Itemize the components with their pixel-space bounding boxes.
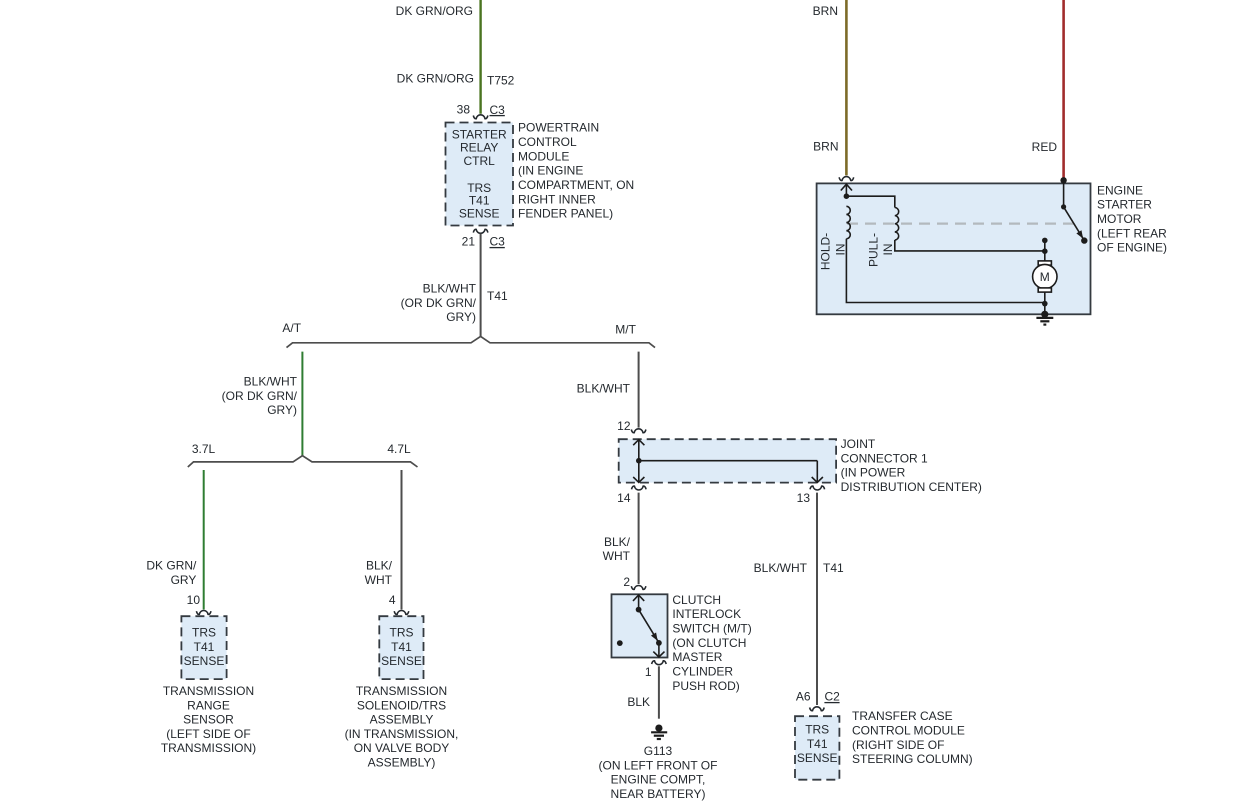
connector symbol C2 pin A6: [810, 707, 825, 711]
svg-text:HOLD-: HOLD-: [819, 233, 833, 270]
switch wire to pin 1: [658, 643, 660, 658]
svg-text:ENGINE: ENGINE: [1097, 183, 1143, 197]
wire entry to junction: [845, 183, 847, 196]
svg-text:4.7L: 4.7L: [387, 442, 411, 456]
svg-text:C3: C3: [490, 235, 506, 249]
svg-text:BLK/WHT: BLK/WHT: [423, 282, 477, 296]
wire DK GRN/ORG to PCM pin 38: [479, 0, 481, 114]
svg-text:CYLINDER: CYLINDER: [672, 665, 733, 679]
svg-text:(IN TRANSMISSION,: (IN TRANSMISSION,: [345, 727, 459, 741]
label DK GRN/ GRY: [146, 559, 197, 588]
svg-text:C2: C2: [825, 689, 841, 703]
svg-text:T41: T41: [194, 640, 215, 654]
svg-text:BLK/: BLK/: [604, 535, 631, 549]
svg-text:T41: T41: [487, 289, 508, 303]
pull-in coil: [895, 208, 899, 241]
hold-in coil: [846, 206, 850, 239]
wire BLK/WHT M/T branch: [638, 352, 640, 428]
svg-text:PULL-: PULL-: [866, 233, 880, 267]
svg-text:RED: RED: [1032, 140, 1058, 154]
connector symbol starter solenoid terminal: [839, 177, 854, 181]
starter terminal arrow up (BRN entry): [841, 184, 852, 190]
svg-text:BRN: BRN: [813, 4, 838, 18]
svg-text:TRANSMISSION): TRANSMISSION): [161, 741, 256, 755]
svg-text:(LEFT SIDE OF: (LEFT SIDE OF: [166, 727, 250, 741]
svg-text:T752: T752: [487, 74, 515, 88]
svg-text:NEAR BATTERY): NEAR BATTERY): [611, 787, 706, 801]
wire motor to bottom bus: [1044, 292, 1046, 314]
label CLUTCH INTERLOCK SWITCH location: [672, 593, 751, 693]
svg-text:C3: C3: [490, 103, 506, 117]
svg-text:GRY: GRY: [171, 573, 197, 587]
svg-text:WHT: WHT: [603, 549, 631, 563]
label BLK/ WHT: [365, 559, 393, 588]
wire pull-in coil to motor node: [895, 240, 1045, 251]
plunger dashed link line: [847, 223, 1075, 225]
label TRANSMISSION SOLENOID/TRS ASSEMBLY location: [345, 684, 459, 770]
label BLK/WHT (OR DK GRN/ GRY) A/T branch: [222, 375, 298, 418]
svg-text:ASSEMBLY: ASSEMBLY: [370, 713, 434, 727]
wire BLK/WHT from JC1 pin 14: [638, 493, 640, 584]
svg-text:10: 10: [187, 593, 201, 607]
svg-text:A/T: A/T: [282, 321, 301, 335]
svg-text:JOINT: JOINT: [841, 437, 876, 451]
motor brush rectangle top: [1038, 261, 1051, 265]
switch feed stub: [1063, 180, 1065, 207]
JC1 internal wire pin 12 to pin 14: [638, 439, 640, 482]
svg-text:RIGHT INNER: RIGHT INNER: [518, 192, 596, 206]
svg-text:DK GRN/: DK GRN/: [146, 559, 197, 573]
label TRANSMISSION RANGE SENSOR location: [161, 684, 256, 755]
transfer case control module box: [795, 716, 839, 780]
wire motor contact to node: [1044, 240, 1046, 251]
svg-text:21: 21: [462, 235, 476, 249]
svg-text:(OR DK GRN/: (OR DK GRN/: [401, 296, 477, 310]
PCM pin name text STARTER RELAY CTRL: [452, 128, 507, 168]
svg-text:GRY): GRY): [267, 403, 297, 417]
svg-text:M/T: M/T: [615, 323, 636, 337]
label G113 location: [599, 744, 718, 801]
JC1 internal bus wire: [639, 460, 818, 462]
svg-text:TRS: TRS: [805, 723, 829, 737]
svg-text:T41: T41: [391, 640, 412, 654]
svg-text:TRS: TRS: [390, 626, 414, 640]
svg-text:BLK/WHT: BLK/WHT: [754, 561, 808, 575]
TRS T41 SENSE text (TCCM): [797, 723, 838, 766]
svg-text:COMPARTMENT, ON: COMPARTMENT, ON: [518, 178, 634, 192]
label BLK/WHT (OR DK GRN/ GRY): [401, 282, 477, 325]
wire BLK/WHT T41 from JC1 pin 13: [816, 493, 818, 705]
wire BLK to ground G113: [658, 666, 660, 718]
svg-text:T41: T41: [807, 737, 828, 751]
clutch interlock switch box: [612, 594, 668, 657]
connector symbol switch pin 1: [652, 661, 667, 665]
svg-text:2: 2: [623, 575, 630, 589]
svg-text:(ON CLUTCH: (ON CLUTCH: [672, 636, 746, 650]
label connector C3 (bottom): [490, 235, 506, 249]
svg-text:4: 4: [389, 593, 396, 607]
svg-text:T41: T41: [469, 194, 490, 208]
switch open contact dot: [617, 640, 623, 646]
junction dot hold-in/pull-in: [844, 193, 850, 199]
switch terminal arrow up (pin 2): [633, 595, 644, 601]
label TRANSFER CASE CONTROL MODULE location: [852, 709, 973, 766]
svg-text:T41: T41: [823, 561, 844, 575]
svg-text:3.7L: 3.7L: [192, 442, 216, 456]
transmission range sensor box: [181, 616, 226, 679]
switch blade arrowhead: [651, 633, 658, 641]
PCM module box (Powertrain Control Module): [446, 123, 514, 226]
svg-text:SENSE: SENSE: [459, 207, 500, 221]
svg-text:38: 38: [457, 103, 471, 117]
svg-text:1: 1: [645, 665, 652, 679]
motor bottom junction dot: [1042, 301, 1048, 307]
solenoid switch blade tip dot: [1081, 237, 1087, 243]
switch contact dot (pin 1 side): [656, 640, 662, 646]
wire BLK/WHT T41 from PCM pin 21: [480, 234, 482, 337]
wire DK GRN/GRY 3.7L branch: [203, 470, 205, 610]
svg-text:BLK: BLK: [627, 695, 650, 709]
svg-text:TRANSMISSION: TRANSMISSION: [163, 684, 254, 698]
svg-text:DK GRN/ORG: DK GRN/ORG: [397, 72, 474, 86]
label BLK/ WHT (switch feed): [603, 535, 631, 563]
JC1 terminal arrow down (pin 13): [812, 477, 823, 482]
svg-text:TRANSMISSION: TRANSMISSION: [356, 684, 447, 698]
svg-text:ASSEMBLY): ASSEMBLY): [368, 756, 436, 770]
connector symbol JC1 pin 14: [632, 486, 647, 490]
svg-text:ENGINE COMPT,: ENGINE COMPT,: [611, 773, 706, 787]
svg-text:MODULE: MODULE: [518, 149, 569, 163]
svg-text:INTERLOCK: INTERLOCK: [672, 607, 741, 621]
svg-text:GRY): GRY): [446, 310, 476, 324]
svg-text:SENSE: SENSE: [381, 654, 422, 668]
svg-text:13: 13: [797, 491, 811, 505]
svg-text:BRN: BRN: [813, 140, 838, 154]
svg-text:(IN ENGINE: (IN ENGINE: [518, 164, 583, 178]
svg-text:CLUTCH: CLUTCH: [672, 593, 721, 607]
svg-text:RANGE: RANGE: [187, 698, 230, 712]
connector symbol JC1 pin 12: [631, 429, 646, 433]
switch wire from pin 2: [638, 594, 640, 609]
switch terminal arrow down (pin 1): [653, 652, 664, 657]
svg-text:SENSE: SENSE: [797, 751, 838, 765]
connector symbol JC1 pin 13: [810, 486, 825, 490]
svg-text:(IN POWER: (IN POWER: [841, 466, 906, 480]
wire RED feed: [1062, 0, 1065, 179]
switch blade: [639, 610, 659, 643]
label PULL- IN (rotated): [866, 233, 895, 267]
svg-text:ON VALVE BODY: ON VALVE BODY: [354, 741, 450, 755]
svg-text:TRS: TRS: [192, 626, 216, 640]
JC1 terminal arrow up (pin 12): [633, 440, 644, 446]
switch pivot dot: [1061, 204, 1066, 209]
svg-text:BLK/WHT: BLK/WHT: [577, 382, 631, 396]
svg-text:BLK/WHT: BLK/WHT: [244, 375, 298, 389]
connector symbol solenoid pin 4: [394, 611, 409, 615]
svg-text:(ON LEFT FRONT OF: (ON LEFT FRONT OF: [599, 758, 718, 772]
label connector C2: [824, 689, 840, 703]
svg-text:RELAY: RELAY: [460, 140, 498, 154]
switch contact dot at RED entry: [1060, 177, 1066, 183]
label JOINT CONNECTOR 1 location: [841, 437, 982, 494]
svg-text:IN: IN: [833, 244, 847, 256]
label HOLD- IN (rotated): [819, 233, 848, 270]
svg-text:(RIGHT SIDE OF: (RIGHT SIDE OF: [852, 738, 944, 752]
wire hold-in coil to motor bottom: [846, 239, 1044, 303]
solenoid switch blade: [1064, 207, 1085, 241]
label connector C3: [490, 103, 506, 117]
joint connector 1 box: [619, 439, 836, 482]
svg-text:CTRL: CTRL: [464, 154, 496, 168]
PCM pin name text TRS T41 SENSE: [459, 181, 500, 220]
JC1 junction dot: [636, 458, 642, 464]
svg-text:A6: A6: [796, 689, 811, 703]
svg-text:STARTER: STARTER: [1097, 198, 1152, 212]
svg-text:DISTRIBUTION CENTER): DISTRIBUTION CENTER): [841, 480, 982, 494]
solenoid switch blade arrowhead: [1076, 230, 1083, 238]
splice brace 3.7L - 4.7L: [188, 456, 418, 467]
wire BLK/WHT 4.7L branch: [401, 470, 403, 610]
TRS T41 SENSE text (range sensor): [184, 626, 225, 669]
motor upper contact dot: [1042, 238, 1048, 244]
ground G113 symbol: [651, 725, 667, 740]
svg-text:CONTROL MODULE: CONTROL MODULE: [852, 724, 965, 738]
svg-text:(OR DK GRN/: (OR DK GRN/: [222, 389, 298, 403]
svg-text:DK GRN/ORG: DK GRN/ORG: [396, 4, 473, 18]
engine starter motor box: [817, 183, 1091, 314]
svg-text:SWITCH (M/T): SWITCH (M/T): [672, 622, 751, 636]
svg-text:MOTOR: MOTOR: [1097, 212, 1142, 226]
motor M1 circle: [1033, 264, 1057, 288]
JC1 internal wire to pin 13: [816, 461, 818, 483]
wire A/T branch green: [301, 352, 303, 456]
wire junction to pull-in coil: [846, 196, 894, 207]
connector symbol C3 pin 38: [473, 115, 488, 119]
connector symbol TRS pin 10: [196, 611, 211, 615]
svg-text:SOLENOID/TRS: SOLENOID/TRS: [357, 698, 446, 712]
svg-text:SENSE: SENSE: [184, 654, 225, 668]
svg-text:FENDER PANEL): FENDER PANEL): [518, 207, 613, 221]
svg-text:OF ENGINE): OF ENGINE): [1097, 241, 1167, 255]
transmission solenoid/TRS assembly box: [379, 616, 423, 679]
svg-text:(LEFT REAR: (LEFT REAR: [1097, 226, 1167, 240]
svg-text:M: M: [1040, 270, 1050, 284]
svg-text:WHT: WHT: [365, 573, 393, 587]
motor node dot: [1042, 248, 1048, 254]
switch common contact dot: [636, 607, 642, 613]
svg-text:TRANSFER CASE: TRANSFER CASE: [852, 709, 953, 723]
motor brush rectangle bottom: [1038, 288, 1051, 292]
JC1 terminal arrow down (pin 14): [633, 477, 644, 482]
svg-text:SENSOR: SENSOR: [183, 713, 234, 727]
connector symbol C3 pin 21: [473, 229, 488, 233]
svg-text:12: 12: [617, 419, 631, 433]
svg-text:IN: IN: [881, 244, 895, 256]
splice brace A/T - M/T: [287, 336, 656, 347]
svg-text:PUSH ROD): PUSH ROD): [672, 679, 739, 693]
starter case ground symbol: [1036, 318, 1053, 325]
wire node to motor brush: [1044, 251, 1046, 261]
svg-text:14: 14: [617, 491, 631, 505]
svg-text:POWERTRAIN: POWERTRAIN: [518, 121, 599, 135]
connector symbol switch pin 2: [631, 586, 646, 590]
wire BRN feed: [845, 0, 848, 175]
svg-text:BLK/: BLK/: [366, 559, 393, 573]
case ground dot on box edge: [1041, 311, 1048, 318]
svg-text:CONNECTOR 1: CONNECTOR 1: [841, 451, 928, 465]
svg-text:MASTER: MASTER: [672, 650, 722, 664]
svg-text:G113: G113: [644, 744, 673, 758]
svg-text:CONTROL: CONTROL: [518, 135, 577, 149]
TRS T41 SENSE text (solenoid): [381, 626, 422, 669]
label ENGINE STARTER MOTOR location: [1097, 183, 1167, 254]
svg-text:STEERING COLUMN): STEERING COLUMN): [852, 752, 973, 766]
label POWERTRAIN CONTROL MODULE location: [518, 121, 634, 221]
